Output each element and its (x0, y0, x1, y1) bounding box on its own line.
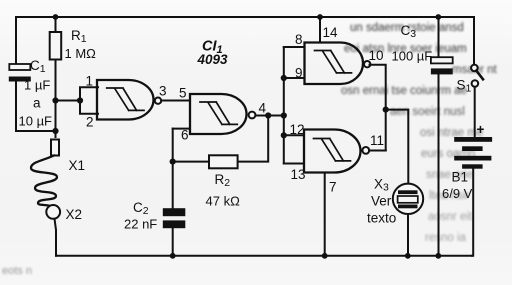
svg-text:12: 12 (290, 122, 305, 137)
wire R2 left to node (173, 161, 209, 163)
node C3 ground (435, 253, 441, 259)
wire node 4 horizontal (256, 115, 284, 117)
wire pin 10 to tie node (370, 65, 386, 151)
wire R1 bottom to node a (55, 60, 57, 138)
wire pin 11 to tie node (369, 150, 386, 152)
svg-text:10: 10 (369, 48, 384, 63)
svg-text:+: + (477, 122, 485, 137)
svg-text:4: 4 (259, 101, 267, 116)
wire pin 3 to pin 5 (161, 100, 190, 102)
svg-text:47 kΩ: 47 kΩ (206, 194, 241, 209)
svg-text:1 MΩ: 1 MΩ (65, 46, 97, 61)
svg-text:6: 6 (181, 128, 189, 143)
battery B1 (454, 137, 492, 169)
schmitt symbol gate 3 (315, 51, 352, 73)
terminal X2 (46, 205, 60, 219)
node C3 rail (435, 14, 441, 20)
svg-text:aosnr eit: aosnr eit (428, 211, 473, 223)
wire pin 13 stub (284, 163, 304, 165)
svg-text:a: a (33, 96, 41, 111)
svg-text:11: 11 (370, 133, 384, 148)
svg-text:13: 13 (291, 167, 306, 182)
wire C3 top (438, 17, 440, 57)
svg-text:texto: texto (367, 211, 396, 226)
schmitt symbol gate 1 (107, 88, 144, 110)
node pin 12 (281, 132, 287, 138)
node pin 9 (281, 75, 287, 81)
svg-text:B1: B1 (452, 170, 469, 185)
svg-text:3: 3 (159, 84, 167, 99)
NAND gate U1a body (97, 80, 154, 120)
svg-text:1: 1 (86, 74, 94, 89)
capacitor C1 (9, 64, 31, 82)
svg-text:7: 7 (329, 180, 337, 195)
node R1 top (53, 14, 59, 20)
svg-text:osn ernai tse coiunrm ae: osn ernai tse coiunrm ae (341, 85, 467, 97)
wire top supply rail (16, 16, 474, 18)
NAND gate U1d body (304, 130, 360, 173)
node output tie (383, 107, 389, 113)
output bubble gate 1 (155, 98, 161, 104)
node 4 left (265, 112, 271, 118)
schmitt symbol gate 2 (200, 102, 237, 124)
wire S1 to battery (474, 87, 476, 137)
wire X1 wavy lead (31, 156, 57, 207)
svg-text:X1: X1 (69, 158, 86, 173)
node gate1 input (77, 97, 83, 103)
wire node down to C2 (172, 162, 174, 209)
svg-text:100 µF: 100 µF (392, 49, 433, 64)
svg-text:1 µF: 1 µF (24, 78, 50, 93)
node R2 left (170, 159, 176, 165)
wire right branch to S1 (473, 17, 475, 65)
wire bottom ground rail (56, 255, 472, 257)
wire battery to ground rail (472, 169, 473, 256)
wire tie node to X3 (386, 110, 409, 184)
svg-text:8: 8 (295, 32, 303, 47)
node a (52, 97, 58, 103)
svg-text:X2: X2 (66, 207, 83, 222)
switch S1 (471, 65, 483, 87)
wire C2 bottom to ground (172, 228, 174, 256)
svg-text:14: 14 (323, 25, 339, 40)
wire input bracket gate 1 (80, 87, 98, 113)
wire pin 12 stub (284, 134, 304, 136)
transducer X1 element (51, 140, 59, 156)
wire pin 7 to ground (324, 173, 326, 256)
node X3 ground (405, 253, 411, 259)
NAND gate U1b body (190, 94, 246, 134)
wire pin 8 stub (284, 46, 304, 48)
node C2 ground (170, 253, 176, 259)
NAND gate U1c body (305, 43, 363, 85)
node pin14 rail (317, 14, 323, 20)
wire node a to gate inputs (56, 100, 81, 102)
node pin7 ground (322, 253, 328, 259)
svg-text:2: 2 (86, 115, 94, 130)
wire C1 bottom to junction (16, 82, 56, 132)
wire node to pin 6 (172, 129, 174, 162)
wire node 4 down to R2 right (238, 116, 269, 162)
wire pin 9 stub (284, 77, 304, 79)
wire bus node 4 vertical (283, 47, 285, 164)
capacitor C2 (163, 208, 186, 228)
svg-text:4093: 4093 (197, 52, 229, 67)
svg-text:9: 9 (295, 66, 303, 81)
node 4 bus (281, 112, 287, 118)
output bubble gate 4 (362, 147, 369, 154)
svg-text:aen soeirt nusl: aen soeirt nusl (390, 106, 465, 118)
wire left branch down to C1 (15, 17, 17, 64)
svg-text:22 nF: 22 nF (124, 217, 157, 232)
buzzer X3 (393, 184, 423, 214)
wire pin 6 stub (173, 128, 190, 130)
wire R1 top (55, 17, 57, 32)
capacitor C3 (431, 57, 453, 74)
schmitt symbol gate 4 (314, 139, 351, 161)
svg-text:6/9 V: 6/9 V (442, 186, 473, 201)
svg-text:resno ia: resno ia (425, 232, 467, 244)
wire X2 to ground rail (55, 219, 57, 256)
resistor R1 (50, 32, 62, 60)
wire C3 bottom to ground (438, 74, 440, 255)
label CI1 4093 (197, 39, 229, 68)
svg-text:Ver: Ver (371, 194, 392, 209)
output bubble gate 2 (249, 112, 256, 119)
wire X3 to ground (407, 214, 409, 256)
svg-text:10 µF: 10 µF (19, 114, 53, 129)
output bubble gate 3 (364, 61, 370, 67)
svg-text:eots n: eots n (2, 265, 32, 277)
wire pin 14 (319, 17, 321, 42)
node C1 junction (52, 128, 58, 134)
svg-text:5: 5 (179, 86, 187, 101)
resistor R2 (209, 155, 238, 168)
